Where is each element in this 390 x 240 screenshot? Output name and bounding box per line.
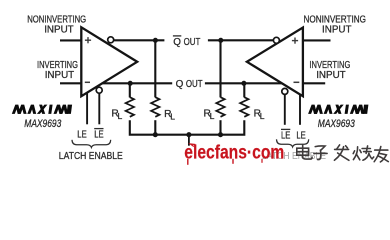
U1 plus input symbol — [85, 37, 91, 43]
wire: U1 LEbar pin — [98, 93, 100, 124]
svg-text:L: L — [118, 111, 123, 121]
svg-text:INPUT: INPUT — [322, 24, 352, 35]
svg-text:LATCH ENABLE: LATCH ENABLE — [59, 151, 123, 162]
wire: R3 bottom lead — [219, 120, 221, 135]
resistor R3 — [216, 97, 224, 117]
wire: Qbar line left segment — [114, 39, 165, 41]
label R3 value RL — [204, 108, 215, 121]
wire: R3 top lead (from Qbar line, crosses Q line) — [219, 40, 221, 97]
svg-text:Q: Q — [173, 37, 181, 48]
U1 Qbar output bubble — [108, 37, 114, 43]
watermark: elecfans.com red logo text — [184, 143, 284, 165]
U2 latch-enable-bar bubble — [282, 88, 288, 94]
watermark: Chinese character you — [374, 147, 388, 162]
label: right INVERTING INPUT — [309, 60, 350, 81]
svg-text:INPUT: INPUT — [44, 25, 74, 36]
resistor R4 — [240, 97, 248, 117]
wire: R1 top lead — [129, 83, 131, 97]
svg-text:OUT: OUT — [186, 79, 203, 90]
watermark: Chinese character dian — [297, 145, 312, 159]
svg-text:MAX9693: MAX9693 — [318, 118, 355, 130]
svg-text:MAX9693: MAX9693 — [24, 118, 61, 130]
node: rail junction at R2 — [153, 132, 158, 137]
watermark: Chinese character fa — [334, 145, 349, 160]
node: rail junction at R3 — [218, 132, 223, 137]
wire: right noninverting input — [303, 39, 331, 41]
watermark: Chinese character shao — [353, 146, 374, 160]
op-amp U1 (left MAX9693 comparator triangle) — [81, 27, 137, 96]
U2 Qbar output bubble — [273, 37, 279, 43]
label: U2 LEbar — [281, 129, 291, 141]
resistor R1 — [126, 97, 134, 117]
svg-text:OUT: OUT — [184, 37, 201, 48]
wire: Qbar line right segment — [208, 39, 274, 41]
wire: U2 LE pin — [299, 95, 301, 125]
svg-text:INPUT: INPUT — [45, 70, 75, 81]
wire: left noninverting input — [60, 39, 81, 41]
node: Qbar junction right — [218, 38, 223, 43]
wire: R2 bottom lead — [154, 120, 156, 135]
wire: U1 LE pin — [86, 93, 88, 125]
wire: R4 top lead — [243, 83, 245, 97]
svg-text:LE: LE — [94, 130, 104, 141]
brace: right latch enable — [277, 139, 309, 147]
watermark: Chinese character zi — [314, 146, 327, 160]
label: Q OUT — [176, 79, 203, 90]
label: left NONINVERTING INPUT — [27, 15, 86, 36]
wire: U2 LEbar pin — [284, 94, 286, 124]
brace: left latch enable — [72, 140, 111, 148]
label: right NONINVERTING INPUT — [304, 14, 367, 35]
svg-text:elecfans·com: elecfans·com — [184, 143, 284, 164]
wire: Q line left segment — [102, 82, 172, 84]
label: left INVERTING INPUT — [37, 60, 78, 81]
wire: centre stub to supply — [188, 135, 190, 146]
label R2 value RL — [164, 109, 175, 122]
svg-text:Q: Q — [176, 79, 184, 90]
svg-text:LE: LE — [296, 131, 306, 142]
wire: left inverting input — [60, 82, 81, 84]
logo: right MAXIM — [308, 105, 368, 114]
U2 minus input symbol — [294, 81, 300, 83]
wire: bottom rail with outer resistor leads — [130, 120, 245, 135]
node: Q junction right — [241, 81, 246, 86]
svg-text:LE: LE — [77, 130, 87, 141]
label: U1 LEbar — [94, 129, 104, 141]
node: rail centre junction — [186, 132, 191, 137]
label R1 value RL — [111, 108, 122, 121]
node: Qbar junction left — [153, 38, 158, 43]
svg-text:L: L — [260, 111, 265, 121]
node: Q junction left — [128, 81, 133, 86]
svg-text:LE: LE — [281, 131, 291, 142]
logo: left MAXIM — [12, 105, 72, 114]
label: QBAR OUT — [173, 36, 201, 48]
wire: R2 top lead (from Qbar line, crosses Q line) — [154, 40, 156, 97]
U1 latch-enable-bar bubble — [96, 87, 102, 93]
svg-text:L: L — [170, 112, 175, 122]
op-amp U2 (right MAX9693 comparator triangle) — [247, 28, 303, 97]
label R4 value RL — [254, 108, 265, 121]
U2 plus input symbol — [292, 38, 298, 44]
resistor R2 — [151, 97, 159, 117]
svg-text:L: L — [210, 111, 215, 121]
wire: right inverting input — [303, 82, 325, 84]
wire: Q line right segment — [205, 82, 282, 84]
U1 minus input symbol — [85, 81, 90, 83]
svg-text:INPUT: INPUT — [316, 70, 346, 81]
